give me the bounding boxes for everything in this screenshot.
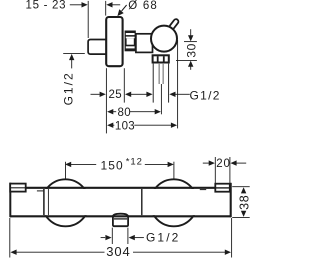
right escutcheon (circle) [150, 179, 197, 226]
dimension 304 (overall length) [10, 218, 232, 259]
thermostat handle (circle) [151, 26, 177, 52]
label Ø68 (escutcheon diameter) with leader [117, 0, 158, 16]
label G1/2 (bottom outlet) with leader [101, 228, 181, 245]
valve body [136, 34, 153, 53]
left top block (wall union collar) [10, 184, 26, 192]
svg-text:30: 30 [184, 43, 198, 58]
dimension 38 (bar diameter, vertical right) [232, 187, 251, 218]
knurled union nut [125, 31, 136, 52]
svg-text:304: 304 [106, 244, 130, 259]
svg-text:80: 80 [118, 107, 132, 119]
bar left end cap edge [9, 183, 11, 218]
outlet union nut below handle [153, 55, 169, 62]
bar right end edge [230, 183, 232, 217]
svg-text:20: 20 [216, 158, 231, 170]
escutcheon plate (side view) [106, 17, 122, 66]
svg-text:25: 25 [109, 89, 123, 101]
svg-text:150: 150 [101, 158, 124, 172]
svg-text:Ø 68: Ø 68 [128, 0, 158, 12]
svg-text:103: 103 [115, 120, 135, 132]
dimension 25 (escutcheon depth) [91, 68, 153, 133]
svg-text:*12: *12 [126, 157, 143, 168]
dimension 30 (vertical, outlet offset) [176, 29, 198, 70]
svg-text:38: 38 [237, 195, 251, 210]
dimension 103 (projection) [107, 40, 178, 132]
svg-text:G1/2: G1/2 [190, 89, 221, 103]
mixer bar body (erase circles behind) [10, 188, 231, 217]
label G1/2 (outlet, top view) with leader [169, 89, 220, 103]
svg-text:G1/2: G1/2 [146, 230, 180, 244]
seam lines left cap / bar [37, 189, 206, 215]
wall connector (S-union into wall) [88, 40, 106, 55]
label G1/2 (wall connections, left, rotated) [62, 53, 85, 105]
svg-text:G1/2: G1/2 [62, 71, 76, 105]
dimension 80 (wall to outlet centre) [107, 107, 161, 119]
svg-text:15 - 23: 15 - 23 [26, 0, 67, 12]
right top block (wall union collar) [215, 184, 230, 192]
dimension 15-23 (wall to escutcheon) [26, 0, 121, 38]
dimension 150 *12 (centres distance) [65, 157, 174, 180]
outlet pipe (G1/2 to hose) [153, 64, 168, 115]
dimension 20 (end block width) [203, 157, 246, 183]
handle safety button (ear) [172, 22, 176, 27]
left escutcheon (circle) [42, 179, 89, 226]
bottom outlet nut (G1/2 shower hose) [113, 214, 128, 227]
